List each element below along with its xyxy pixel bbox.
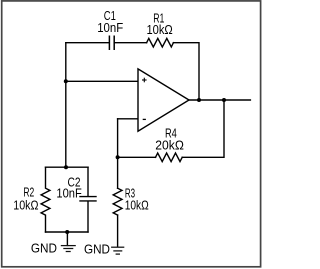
wire: C1 left lead [66, 42, 109, 44]
wire: R3 top lead [117, 157, 119, 188]
capacitor C2 plates [80, 196, 96, 198]
ground GND1 [61, 246, 76, 252]
op-amp U1 [138, 69, 189, 131]
svg-text:10nF: 10nF [97, 21, 123, 35]
wire: non-inverting input [66, 80, 138, 82]
capacitor C2 bottom lead [87, 202, 89, 233]
capacitor C2 top lead [87, 167, 89, 196]
junction node: R2/C2 bottom [65, 230, 69, 234]
wire: R3 bottom lead / ground stub 2 [117, 215, 119, 247]
junction node: +input tap [64, 79, 68, 83]
wire: R4 left lead [118, 156, 156, 158]
svg-text:10kΩ: 10kΩ [125, 199, 149, 213]
ground GND2 [111, 247, 124, 254]
svg-text:10kΩ: 10kΩ [13, 198, 38, 212]
resistor R3 [113, 188, 122, 215]
wire: R2/C2 bottom rail [46, 231, 89, 233]
resistor R4 [156, 153, 183, 162]
wire: left vertical from C1 node down to R2/C2 [65, 43, 67, 168]
wire: C1 to R1 [115, 42, 147, 44]
op-amp minus sign [143, 118, 146, 120]
junction node: inverting/R4/R3 [116, 155, 120, 159]
junction node: R2/C2 top [64, 165, 68, 169]
svg-text:20kΩ: 20kΩ [155, 138, 184, 152]
svg-text:R2: R2 [23, 186, 34, 200]
op-amp plus sign [142, 78, 147, 83]
wire: inverting node down to R4/R3 junction [117, 119, 119, 158]
wire: R4 right lead up to output [182, 100, 224, 157]
ground stub 1 [66, 232, 68, 245]
svg-text:10kΩ: 10kΩ [146, 23, 172, 37]
wire: inverting input [118, 118, 138, 120]
junction node: output/R4 [222, 98, 226, 102]
svg-text:GND: GND [31, 242, 57, 256]
svg-text:10nF: 10nF [56, 187, 82, 201]
wire: R2/C2 top rail [46, 166, 89, 168]
resistor R2 [41, 167, 50, 232]
junction node: output/R1 [197, 98, 201, 102]
wire: op-amp output [189, 99, 250, 101]
resistor R1 [147, 38, 174, 47]
wire: R1 right lead, down to output node [173, 43, 199, 100]
svg-text:GND: GND [84, 242, 110, 256]
capacitor C1 plates [109, 36, 114, 51]
